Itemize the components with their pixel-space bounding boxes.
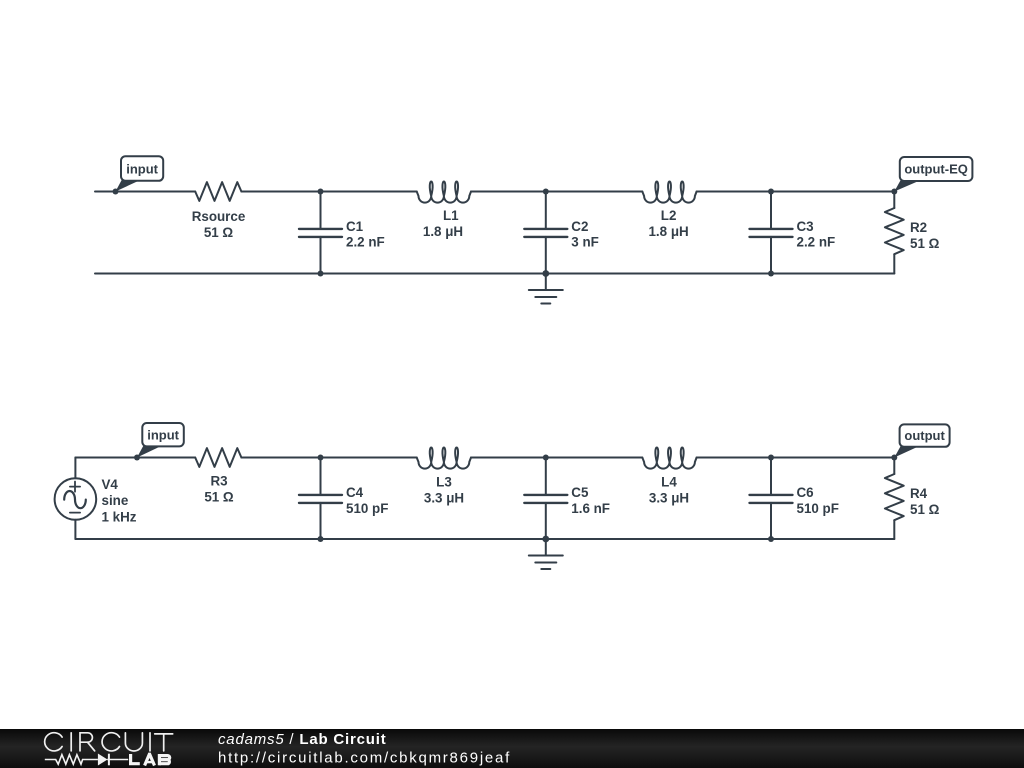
svg-text:sine: sine	[102, 493, 129, 508]
resistor R4	[885, 458, 904, 540]
wire bottom rail (bottom circuit)	[75, 538, 894, 540]
junction dot C1 bottom	[318, 271, 324, 277]
junction dot C3 bottom	[768, 271, 774, 277]
wire top rail segment 3 (bottom circuit)	[471, 457, 642, 459]
junction dot C6 top	[768, 455, 774, 461]
label V4 name	[102, 477, 119, 492]
label R2 value	[910, 236, 940, 251]
wire top rail segment 2 (top circuit)	[241, 191, 416, 193]
capacitor C5	[524, 458, 567, 540]
capacitor C4	[299, 458, 342, 540]
footer bar	[0, 729, 1024, 768]
inductor L1	[417, 181, 471, 202]
svg-text:L1: L1	[443, 208, 459, 223]
inductor L4	[642, 447, 696, 468]
svg-text:output: output	[904, 428, 945, 443]
label V4 value	[102, 509, 137, 524]
capacitor C3	[750, 192, 793, 274]
ground (bottom circuit)	[529, 539, 563, 569]
svg-text:R4: R4	[910, 486, 928, 501]
svg-text:C6: C6	[797, 485, 814, 500]
junction dot C5 bottom	[542, 536, 549, 543]
label C1 value	[346, 235, 385, 250]
svg-text:Rsource: Rsource	[192, 209, 246, 224]
inductor L2	[642, 181, 696, 202]
svg-text:http://circuitlab.com/cbkqmr86: http://circuitlab.com/cbkqmr869jeaf	[218, 750, 511, 767]
label L2 value	[648, 224, 688, 239]
svg-text:C4: C4	[346, 485, 364, 500]
label C6 value	[797, 501, 839, 516]
label C4 name	[346, 485, 364, 500]
junction dot C1 top	[318, 189, 324, 195]
label C2 name	[571, 219, 588, 234]
resistor R2	[885, 192, 904, 274]
junction dot C3 top	[768, 189, 774, 195]
label Rsource name	[192, 209, 246, 224]
svg-text:3.3 μH: 3.3 μH	[424, 491, 464, 506]
label R3 value	[204, 490, 234, 505]
wire top rail segment 4 (top circuit)	[697, 191, 895, 193]
svg-text:input: input	[147, 427, 179, 442]
junction dot C2 bottom	[542, 270, 549, 277]
label C4 value	[346, 501, 388, 516]
label C3 name	[797, 219, 814, 234]
label R4 value	[910, 502, 940, 517]
logo resistor-diode doodle	[45, 754, 128, 766]
svg-text:1.8 μH: 1.8 μH	[423, 224, 463, 239]
svg-text:2.2 nF: 2.2 nF	[346, 235, 385, 250]
svg-text:51 Ω: 51 Ω	[910, 502, 940, 517]
node output (bottom circuit)	[891, 424, 949, 460]
inductor L3	[417, 447, 471, 468]
label C6 name	[797, 485, 814, 500]
label C5 value	[571, 501, 610, 516]
node input (bottom circuit)	[134, 423, 184, 461]
label R3 name	[210, 474, 227, 489]
svg-text:C1: C1	[346, 219, 364, 234]
wire bottom rail (top circuit)	[95, 273, 894, 275]
svg-text:L3: L3	[436, 474, 452, 489]
label L3 name	[436, 474, 452, 489]
label L4 name	[661, 474, 677, 489]
svg-text:510 pF: 510 pF	[346, 501, 388, 516]
svg-text:1.8 μH: 1.8 μH	[648, 224, 688, 239]
svg-text:3 nF: 3 nF	[571, 235, 599, 250]
svg-text:1 kHz: 1 kHz	[102, 509, 137, 524]
junction dot C6 bottom	[768, 536, 774, 542]
svg-text:C2: C2	[571, 219, 588, 234]
capacitor C1	[299, 192, 342, 274]
svg-text:3.3 μH: 3.3 μH	[649, 491, 689, 506]
capacitor C2	[524, 192, 567, 274]
logo diode triangle	[98, 754, 108, 766]
junction dot C4 top	[318, 455, 324, 461]
svg-text:51 Ω: 51 Ω	[910, 236, 940, 251]
wire top rail segment 2 (bottom circuit)	[241, 457, 416, 459]
logo LAB lettering	[131, 754, 170, 766]
svg-text:R3: R3	[210, 474, 227, 489]
wire top rail segment 1 (bottom circuit)	[75, 457, 195, 459]
svg-text:output-EQ: output-EQ	[904, 162, 968, 177]
svg-text:C5: C5	[571, 485, 589, 500]
voltage source V4	[55, 458, 97, 540]
label V4 type	[102, 493, 129, 508]
svg-text:2.2 nF: 2.2 nF	[797, 235, 836, 250]
label Rsource value	[204, 225, 234, 240]
ground (top circuit)	[529, 274, 563, 304]
label C3 value	[797, 235, 836, 250]
junction dot C2 top	[543, 189, 549, 195]
wire top rail segment 1 (top circuit)	[95, 191, 195, 193]
label L1 name	[443, 208, 459, 223]
wire top rail segment 3 (top circuit)	[471, 191, 642, 193]
svg-text:cadams5 / Lab Circuit: cadams5 / Lab Circuit	[218, 731, 387, 748]
node input (top circuit)	[113, 156, 164, 194]
resistor R3	[195, 448, 241, 467]
svg-text:51 Ω: 51 Ω	[204, 490, 234, 505]
label C1 name	[346, 219, 364, 234]
label R2 name	[910, 220, 927, 235]
junction dot C4 bottom	[318, 536, 324, 542]
label C5 name	[571, 485, 589, 500]
label L3 value	[424, 491, 464, 506]
svg-text:V4: V4	[102, 477, 119, 492]
svg-text:C3: C3	[797, 219, 814, 234]
svg-text:R2: R2	[910, 220, 927, 235]
label L2 name	[661, 208, 677, 223]
label L1 value	[423, 224, 463, 239]
logo CIRCUIT lettering	[45, 733, 173, 751]
svg-text:L2: L2	[661, 208, 677, 223]
resistor Rsource	[195, 182, 241, 201]
capacitor C6	[750, 458, 793, 540]
label R4 name	[910, 486, 928, 501]
node output-EQ (top circuit)	[891, 157, 972, 195]
svg-text:51 Ω: 51 Ω	[204, 225, 234, 240]
footer title line	[218, 731, 511, 767]
svg-text:1.6 nF: 1.6 nF	[571, 501, 610, 516]
wire top rail segment 4 (bottom circuit)	[697, 457, 895, 459]
label C2 value	[571, 235, 599, 250]
svg-text:510 pF: 510 pF	[797, 501, 839, 516]
svg-text:L4: L4	[661, 474, 677, 489]
label L4 value	[649, 491, 689, 506]
svg-text:input: input	[126, 161, 158, 176]
junction dot C5 top	[543, 455, 549, 461]
